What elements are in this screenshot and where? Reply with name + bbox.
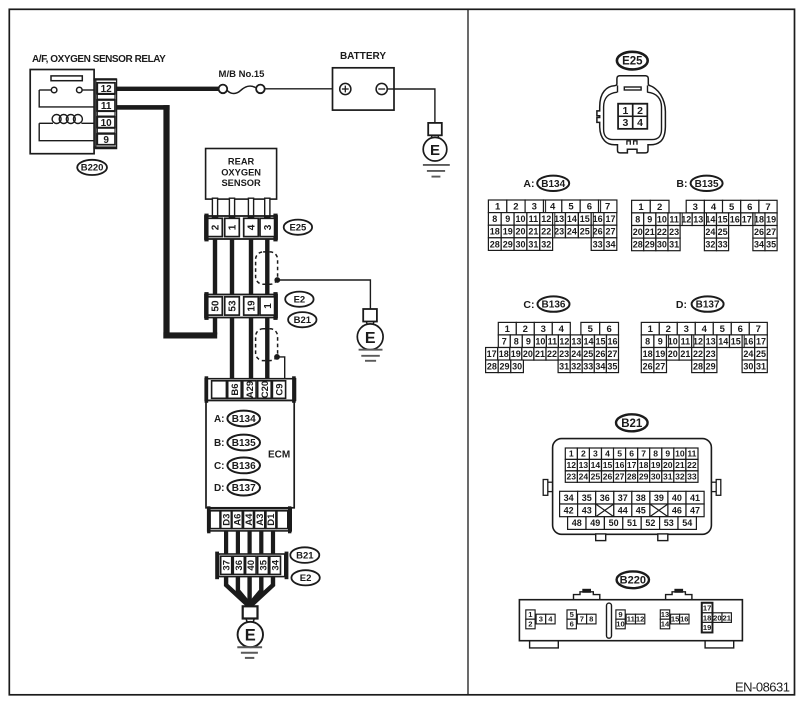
svg-text:10: 10 <box>535 336 545 346</box>
svg-text:14: 14 <box>583 336 593 346</box>
connector E25 face inner wall <box>604 92 662 139</box>
pin C20 of ECM top connector <box>258 381 272 399</box>
svg-text:22: 22 <box>657 227 667 237</box>
svg-text:D:: D: <box>676 299 687 311</box>
svg-text:2: 2 <box>523 324 528 335</box>
wire B21/E2 pin to ground junction 1 <box>226 577 247 607</box>
svg-text:4: 4 <box>559 324 565 335</box>
svg-text:B:: B: <box>676 178 687 190</box>
svg-text:24: 24 <box>579 472 589 482</box>
svg-text:B220: B220 <box>620 575 646 587</box>
pin 9 of B220 relay connector <box>97 134 115 145</box>
svg-text:34: 34 <box>271 559 282 570</box>
svg-text:B134: B134 <box>232 414 256 425</box>
svg-text:49: 49 <box>590 518 600 528</box>
svg-text:10: 10 <box>101 118 113 129</box>
svg-text:29: 29 <box>499 362 509 372</box>
svg-text:D3: D3 <box>221 514 232 526</box>
connector label B220 oval <box>77 160 107 175</box>
svg-text:C20: C20 <box>260 381 271 398</box>
svg-text:A6: A6 <box>233 514 244 526</box>
svg-text:12: 12 <box>636 615 644 624</box>
svg-text:15: 15 <box>595 336 605 346</box>
svg-text:29: 29 <box>706 362 716 372</box>
svg-text:E2: E2 <box>300 573 312 584</box>
svg-text:25: 25 <box>718 227 728 237</box>
B135 row 2 <box>632 213 644 226</box>
svg-text:A/F, OXYGEN SENSOR RELAY: A/F, OXYGEN SENSOR RELAY <box>32 54 166 65</box>
B134 row 1 <box>488 200 506 213</box>
svg-text:35: 35 <box>582 493 592 503</box>
svg-text:25: 25 <box>580 227 590 237</box>
svg-text:6: 6 <box>570 620 574 629</box>
pin 2 of connector E25 <box>208 218 223 236</box>
connector E2/B21 row outer <box>205 295 277 318</box>
svg-text:7: 7 <box>641 449 646 459</box>
svg-text:28: 28 <box>693 362 703 372</box>
svg-text:3: 3 <box>593 449 598 459</box>
pin A4 of ECM bottom connector <box>244 511 254 529</box>
svg-text:11: 11 <box>101 101 112 112</box>
svg-text:5: 5 <box>720 324 726 335</box>
svg-text:27: 27 <box>605 227 615 237</box>
svg-text:9: 9 <box>647 214 652 224</box>
connector B21/E2 bottom row outer <box>219 554 285 577</box>
svg-text:ECM: ECM <box>268 450 290 461</box>
svg-text:53: 53 <box>664 518 674 528</box>
svg-text:19: 19 <box>766 214 776 224</box>
svg-text:10: 10 <box>675 449 685 459</box>
connector B220 face body <box>519 600 742 641</box>
svg-text:7: 7 <box>756 324 761 335</box>
svg-text:A3: A3 <box>255 514 266 526</box>
pin 2 of E25 face <box>633 104 647 116</box>
B134 row 3 <box>488 225 501 238</box>
battery negative terminal <box>387 88 394 90</box>
svg-text:B134: B134 <box>541 179 565 190</box>
svg-text:25: 25 <box>583 349 593 359</box>
svg-text:1: 1 <box>495 202 501 213</box>
sensor terminal stub 1 <box>212 198 217 217</box>
connector B220 face top tabs <box>574 592 600 600</box>
svg-text:12: 12 <box>101 84 113 95</box>
svg-text:21: 21 <box>722 613 731 622</box>
svg-text:33: 33 <box>718 240 728 250</box>
B137 row 3 <box>641 348 654 361</box>
relay K1 body <box>30 70 94 154</box>
svg-text:33: 33 <box>583 362 593 372</box>
svg-text:4: 4 <box>711 202 717 213</box>
svg-text:20: 20 <box>633 227 643 237</box>
ECM U1 body <box>206 400 294 507</box>
svg-text:20: 20 <box>663 460 673 470</box>
pin 14 of B220 face <box>660 619 669 629</box>
svg-text:30: 30 <box>512 362 522 372</box>
ground E mid (shield drain) <box>363 309 377 322</box>
svg-text:E: E <box>245 627 256 645</box>
svg-text:M/B No.15: M/B No.15 <box>219 69 266 80</box>
junction dot shield 1 drain <box>274 277 280 283</box>
B137 row 2 <box>641 335 654 348</box>
connector B220 pin column outer <box>96 79 117 148</box>
pin 36 of connector B21/E2 <box>233 556 244 574</box>
svg-text:9: 9 <box>665 449 670 459</box>
svg-text:E25: E25 <box>289 223 307 234</box>
svg-text:34: 34 <box>595 362 605 372</box>
svg-text:7: 7 <box>765 202 770 213</box>
svg-text:26: 26 <box>603 472 613 482</box>
svg-text:13: 13 <box>661 610 669 619</box>
connector label E2 oval lower <box>291 570 319 585</box>
svg-text:15: 15 <box>731 336 741 346</box>
svg-text:B220: B220 <box>81 163 104 174</box>
svg-text:B21: B21 <box>296 550 314 561</box>
svg-text:2: 2 <box>513 202 518 213</box>
svg-text:BATTERY: BATTERY <box>340 51 386 62</box>
svg-text:46: 46 <box>672 506 682 516</box>
pin 8 of B220 face <box>587 614 596 624</box>
svg-text:2: 2 <box>528 620 532 629</box>
svg-text:34: 34 <box>564 493 574 503</box>
B137 row 1 <box>641 322 659 335</box>
svg-text:21: 21 <box>645 227 655 237</box>
svg-text:16: 16 <box>607 336 617 346</box>
pin A29 of ECM top connector <box>243 381 256 399</box>
svg-text:28: 28 <box>627 472 637 482</box>
svg-text:4: 4 <box>550 202 556 213</box>
wire E25 pin to E2/B21 connector 3 <box>249 239 253 295</box>
svg-text:D:: D: <box>214 483 225 494</box>
pin 1 of connector E25 <box>225 218 240 236</box>
svg-text:B137: B137 <box>232 483 256 494</box>
svg-text:4: 4 <box>637 117 643 129</box>
battery positive terminal <box>340 83 351 94</box>
svg-text:37: 37 <box>222 560 233 571</box>
svg-text:8: 8 <box>635 214 640 224</box>
wire relay pin 11 horizontal <box>117 105 170 110</box>
svg-text:20: 20 <box>713 613 721 622</box>
connector E25 face bottom notches <box>627 141 630 145</box>
svg-text:2: 2 <box>211 224 222 230</box>
wire B21/E2 pin to ground junction 2 <box>238 577 249 607</box>
svg-text:16: 16 <box>593 214 603 224</box>
pin 3 of E25 face <box>618 116 632 128</box>
svg-text:5: 5 <box>729 202 735 213</box>
svg-text:27: 27 <box>607 349 617 359</box>
wire relay pin 11 vertical drop <box>163 105 169 338</box>
sensor terminal stub 4 <box>265 198 270 217</box>
pin 3 of connector E25 <box>260 218 275 236</box>
svg-text:23: 23 <box>706 349 716 359</box>
svg-text:B6: B6 <box>230 383 241 395</box>
svg-text:REAR: REAR <box>228 157 255 167</box>
svg-text:53: 53 <box>228 300 239 312</box>
wire ECM pin to B21/E2 row 1 <box>224 531 228 554</box>
pin D3 of ECM bottom connector <box>221 511 232 529</box>
svg-text:13: 13 <box>571 336 581 346</box>
B135 row 3 <box>632 226 644 239</box>
svg-text:51: 51 <box>627 518 637 528</box>
pin stack 17-19 heavy outline <box>702 603 713 633</box>
svg-text:23: 23 <box>559 349 569 359</box>
pin 12 of B220 face <box>636 614 645 624</box>
svg-text:B21: B21 <box>294 315 312 326</box>
svg-text:29: 29 <box>503 239 513 249</box>
connector E25 face pin grid <box>618 104 648 130</box>
svg-text:9: 9 <box>103 135 109 146</box>
svg-text:8: 8 <box>514 336 519 346</box>
pin 1 of E25 face <box>618 104 632 116</box>
pin 3 of B220 face <box>536 614 546 624</box>
pin 11 of B220 relay connector <box>97 100 115 111</box>
svg-text:B135: B135 <box>232 438 256 449</box>
connector B21 face body <box>553 439 712 535</box>
svg-text:16: 16 <box>680 615 688 624</box>
svg-text:20: 20 <box>523 349 533 359</box>
svg-text:5: 5 <box>617 449 622 459</box>
svg-text:2: 2 <box>657 202 662 213</box>
svg-text:17: 17 <box>487 349 497 359</box>
wire shield 1 drain to ground <box>277 280 370 309</box>
B135 group separators <box>681 213 683 225</box>
svg-text:17: 17 <box>627 460 637 470</box>
svg-text:29: 29 <box>639 472 649 482</box>
svg-text:38: 38 <box>636 493 646 503</box>
svg-text:19: 19 <box>655 349 665 359</box>
svg-text:10: 10 <box>668 336 678 346</box>
svg-text:19: 19 <box>503 227 513 237</box>
svg-text:27: 27 <box>766 227 776 237</box>
svg-text:1: 1 <box>505 324 511 335</box>
pin 37 of connector B21/E2 <box>221 556 232 574</box>
svg-text:3: 3 <box>263 224 274 230</box>
svg-text:7: 7 <box>580 615 584 624</box>
pin blank of ECM top connector <box>212 381 227 399</box>
svg-text:45: 45 <box>636 506 646 516</box>
pin 1 of connector E2/B21 <box>260 297 275 315</box>
svg-text:16: 16 <box>730 214 740 224</box>
connector label E2 oval <box>285 292 313 307</box>
svg-text:C:: C: <box>214 461 225 472</box>
connector label E25 oval <box>284 220 312 235</box>
svg-text:37: 37 <box>618 493 628 503</box>
svg-text:12: 12 <box>693 336 703 346</box>
svg-text:B137: B137 <box>696 300 720 311</box>
svg-text:16: 16 <box>743 336 753 346</box>
pin 12 of B220 relay connector <box>97 83 115 94</box>
svg-text:25: 25 <box>591 472 601 482</box>
svg-text:E2: E2 <box>294 295 306 306</box>
sensor terminal stub 2 <box>229 198 234 217</box>
svg-text:32: 32 <box>571 362 581 372</box>
svg-text:31: 31 <box>669 240 679 250</box>
svg-text:26: 26 <box>643 362 653 372</box>
pin 34 of connector B21/E2 <box>270 556 281 574</box>
pin 16 of B220 face <box>680 614 689 624</box>
svg-text:24: 24 <box>705 227 715 237</box>
svg-text:15: 15 <box>671 615 680 624</box>
svg-text:32: 32 <box>705 240 715 250</box>
svg-text:32: 32 <box>675 472 685 482</box>
svg-text:31: 31 <box>663 472 673 482</box>
svg-text:8: 8 <box>645 336 650 346</box>
svg-text:26: 26 <box>754 227 764 237</box>
svg-text:17: 17 <box>756 336 766 346</box>
svg-text:21: 21 <box>675 460 685 470</box>
sensor REAR OXYGEN SENSOR body <box>206 149 277 200</box>
svg-text:18: 18 <box>639 460 649 470</box>
svg-text:A:: A: <box>214 414 225 425</box>
svg-text:A:: A: <box>523 178 534 190</box>
svg-text:1: 1 <box>638 202 644 213</box>
wire B21/E2 pin to ground junction 5 <box>252 577 273 607</box>
pin 1 of B220 face <box>526 610 535 619</box>
svg-text:E25: E25 <box>622 56 643 68</box>
svg-text:21: 21 <box>528 227 538 237</box>
svg-text:30: 30 <box>515 239 525 249</box>
svg-text:A4: A4 <box>244 513 255 526</box>
svg-text:2: 2 <box>637 105 643 117</box>
B136 row 4 <box>486 360 499 373</box>
pin 20 of B220 face <box>713 613 722 623</box>
svg-text:3: 3 <box>532 202 537 213</box>
svg-text:50: 50 <box>211 300 222 312</box>
svg-text:15: 15 <box>718 214 728 224</box>
svg-text:B21: B21 <box>621 418 643 430</box>
B134 row 2 <box>488 213 501 226</box>
junction dot shield 2 drain <box>274 354 280 360</box>
connector label B21 oval (face view) <box>616 414 648 431</box>
pin 13 of B220 face <box>660 610 669 619</box>
svg-text:21: 21 <box>535 349 545 359</box>
svg-text:50: 50 <box>609 518 619 528</box>
connector ECM top row outer <box>205 379 295 401</box>
svg-text:10: 10 <box>616 620 624 629</box>
svg-text:48: 48 <box>572 518 582 528</box>
B134 group separators <box>545 201 547 213</box>
svg-text:7: 7 <box>605 202 610 213</box>
connector B21 face right tab <box>711 481 716 483</box>
blank separator cells of B220 relay connector <box>97 94 115 99</box>
svg-text:8: 8 <box>653 449 658 459</box>
wire shield 2 drain to ECM C9 <box>277 357 285 379</box>
svg-text:17: 17 <box>605 214 615 224</box>
svg-text:5: 5 <box>588 324 594 335</box>
B137 group separators row 2 <box>668 335 670 347</box>
B135 row 4 <box>632 238 644 251</box>
svg-text:3: 3 <box>541 324 546 335</box>
svg-text:11: 11 <box>529 214 539 224</box>
pin blank of ECM bottom connector <box>210 511 220 529</box>
wire E2/B21 to ECM 2 <box>249 318 253 380</box>
pin 5 of B220 face <box>567 610 576 619</box>
svg-text:10: 10 <box>515 214 525 224</box>
svg-text:11: 11 <box>669 214 679 224</box>
svg-text:4: 4 <box>702 324 708 335</box>
svg-text:7: 7 <box>502 336 507 346</box>
pin 9 of B220 face <box>616 610 625 619</box>
svg-text:22: 22 <box>541 227 551 237</box>
svg-text:1: 1 <box>648 324 654 335</box>
svg-text:35: 35 <box>258 559 269 570</box>
svg-text:32: 32 <box>541 239 551 249</box>
svg-text:11: 11 <box>627 615 636 624</box>
connector E25 face outline <box>597 76 666 153</box>
B136 row 2 <box>498 335 510 348</box>
svg-text:1: 1 <box>228 224 239 230</box>
pin 4 of B220 face <box>546 614 555 624</box>
svg-text:C:: C: <box>523 299 534 311</box>
svg-text:3: 3 <box>539 615 543 624</box>
svg-text:22: 22 <box>693 349 703 359</box>
connector E25 face key slot <box>624 87 641 90</box>
relay K1 contact terminal left <box>51 87 57 93</box>
wire stub E2/B21 pin 50 down to junction <box>213 318 217 335</box>
svg-text:12: 12 <box>567 460 577 470</box>
svg-text:6: 6 <box>629 449 634 459</box>
svg-text:19: 19 <box>511 349 521 359</box>
svg-text:40: 40 <box>246 560 257 571</box>
connector B21 face top grid rows 1-33 <box>565 448 577 459</box>
relay K1 slot <box>51 76 82 81</box>
svg-text:27: 27 <box>615 472 625 482</box>
svg-text:14: 14 <box>718 336 728 346</box>
svg-text:11: 11 <box>687 449 696 459</box>
svg-text:8: 8 <box>492 214 497 224</box>
connector B21 face bottom grid rows 34-54 <box>560 491 578 504</box>
svg-text:3: 3 <box>622 117 628 129</box>
svg-text:25: 25 <box>756 349 766 359</box>
svg-text:1: 1 <box>569 449 574 459</box>
svg-text:23: 23 <box>567 472 577 482</box>
svg-text:OXYGEN: OXYGEN <box>221 167 261 177</box>
svg-text:3: 3 <box>684 324 689 335</box>
svg-text:33: 33 <box>687 472 697 482</box>
svg-text:9: 9 <box>618 610 622 619</box>
svg-text:39: 39 <box>654 493 664 503</box>
svg-text:26: 26 <box>593 227 603 237</box>
svg-text:8: 8 <box>589 615 593 624</box>
svg-text:13: 13 <box>554 214 564 224</box>
fuse M/B No.15 element <box>227 86 256 93</box>
svg-text:15: 15 <box>580 214 590 224</box>
svg-text:17: 17 <box>703 604 711 613</box>
pin 17 of B220 face <box>702 603 712 613</box>
B136 row 3 <box>486 348 498 361</box>
wire B21/E2 pin to ground junction 4 <box>251 577 262 607</box>
relay K1 coil <box>39 122 53 124</box>
pin B6 of ECM top connector <box>228 381 242 399</box>
B137 row 4 <box>641 360 654 373</box>
wire ECM pin to B21/E2 row 2 <box>236 531 240 554</box>
svg-text:15: 15 <box>603 460 613 470</box>
wire ECM pin to B21/E2 row 3 <box>248 531 252 554</box>
svg-text:11: 11 <box>548 336 558 346</box>
svg-text:4: 4 <box>247 224 258 230</box>
pin 40 of connector B21/E2 <box>246 556 257 574</box>
svg-text:E: E <box>430 142 440 159</box>
svg-text:B136: B136 <box>542 300 566 311</box>
wire ECM pin to B21/E2 row 5 <box>271 531 275 554</box>
pin 19 of B220 face <box>702 622 712 632</box>
divider line between schematic and connector views <box>467 9 469 695</box>
pin A6 of ECM bottom connector <box>232 511 242 529</box>
svg-text:14: 14 <box>567 214 577 224</box>
svg-text:9: 9 <box>505 214 510 224</box>
svg-text:19: 19 <box>247 300 258 312</box>
svg-text:16: 16 <box>615 460 625 470</box>
svg-text:40: 40 <box>672 493 682 503</box>
